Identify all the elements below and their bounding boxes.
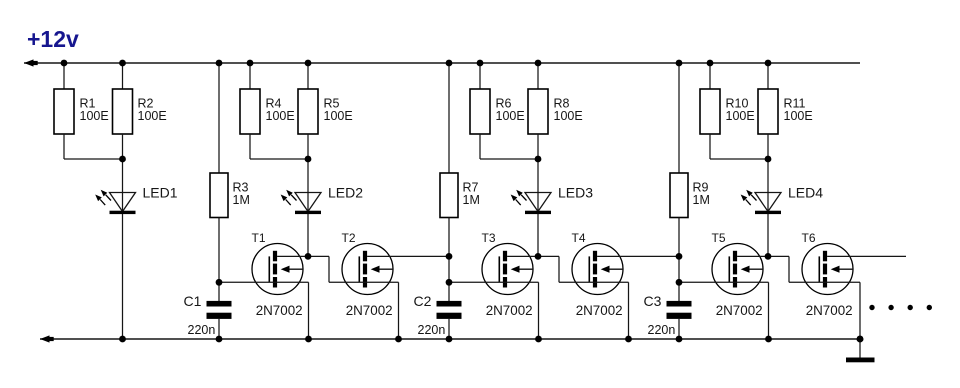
svg-text:C1: C1 bbox=[184, 293, 202, 309]
svg-text:1M: 1M bbox=[693, 193, 710, 207]
svg-text:C2: C2 bbox=[414, 293, 432, 309]
svg-text:T2: T2 bbox=[342, 231, 356, 245]
svg-text:1M: 1M bbox=[233, 193, 250, 207]
svg-text:+12v: +12v bbox=[27, 26, 79, 52]
svg-text:220n: 220n bbox=[418, 323, 446, 337]
svg-text:T3: T3 bbox=[482, 231, 496, 245]
svg-text:2N7002: 2N7002 bbox=[806, 303, 853, 318]
svg-text:100E: 100E bbox=[324, 109, 353, 123]
svg-text:100E: 100E bbox=[80, 109, 109, 123]
svg-text:T4: T4 bbox=[572, 231, 586, 245]
svg-text:220n: 220n bbox=[188, 323, 216, 337]
svg-text:100E: 100E bbox=[784, 109, 813, 123]
svg-text:T6: T6 bbox=[802, 231, 816, 245]
svg-text:LED3: LED3 bbox=[558, 185, 593, 201]
svg-text:2N7002: 2N7002 bbox=[256, 303, 303, 318]
svg-text:C3: C3 bbox=[644, 293, 662, 309]
svg-text:LED4: LED4 bbox=[788, 185, 823, 201]
svg-text:100E: 100E bbox=[554, 109, 583, 123]
svg-text:2N7002: 2N7002 bbox=[486, 303, 533, 318]
svg-text:100E: 100E bbox=[266, 109, 295, 123]
svg-text:100E: 100E bbox=[726, 109, 755, 123]
svg-text:1M: 1M bbox=[463, 193, 480, 207]
svg-text:T5: T5 bbox=[712, 231, 726, 245]
svg-text:100E: 100E bbox=[496, 109, 525, 123]
svg-text:220n: 220n bbox=[648, 323, 676, 337]
svg-text:LED1: LED1 bbox=[143, 185, 178, 201]
svg-text:2N7002: 2N7002 bbox=[346, 303, 393, 318]
svg-text:100E: 100E bbox=[138, 109, 167, 123]
svg-text:2N7002: 2N7002 bbox=[716, 303, 763, 318]
svg-text:T1: T1 bbox=[252, 231, 266, 245]
svg-text:LED2: LED2 bbox=[328, 185, 363, 201]
svg-text:2N7002: 2N7002 bbox=[576, 303, 623, 318]
